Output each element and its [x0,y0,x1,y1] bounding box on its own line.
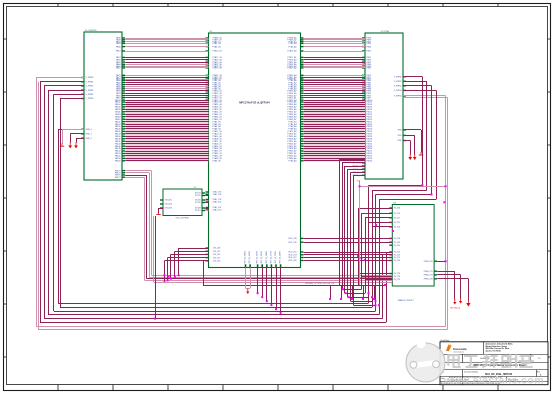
net stubs [305,282,375,300]
svg-text:IN_222: IN_222 [394,222,400,224]
svg-text:RST_B_276N: RST_B_276N [275,251,277,263]
svg-text:www.elecfans.com: www.elecfans.com [443,375,544,387]
power U3 outputs [437,260,470,309]
svg-text:MAIN DC SUPPLY: MAIN DC SUPPLY [398,299,415,302]
svg-text:V_PWR4: V_PWR4 [394,96,402,98]
svg-text:VDD_252: VDD_252 [288,252,296,254]
svg-text:PB177: PB177 [115,177,121,179]
connector J2 [353,31,406,179]
svg-text:PA160: PA160 [115,160,121,163]
svg-text:V_PWR4: V_PWR4 [86,94,94,96]
svg-text:PB46: PB46 [367,46,372,48]
svg-text:RST_B_245N: RST_B_245N [245,251,247,263]
svg-text:IN_279: IN_279 [394,279,400,281]
svg-text:GND_0: GND_0 [86,129,92,131]
title block [440,339,548,385]
svg-text:PWM_271: PWM_271 [424,271,433,273]
svg-text:IN_276: IN_276 [394,276,400,278]
svg-text:RST_B_250N: RST_B_250N [249,251,251,263]
svg-text:JTG_260: JTG_260 [213,261,221,263]
net TVS [357,181,446,286]
svg-text:PB51: PB51 [367,51,372,53]
svg-text:PTA6_G6: PTA6_G6 [213,45,221,48]
svg-text:PWM_274: PWM_274 [424,275,433,277]
svg-text:Austin, TX 78735: Austin, TX 78735 [486,350,501,353]
watermark url [443,375,544,387]
wire bus U1 to J2 [304,39,365,162]
wire VM power loop [36,78,448,330]
svg-text:PA67: PA67 [116,67,120,70]
svg-text:PTA27_G3: PTA27_G3 [213,67,222,70]
crystal block Y1 [160,187,205,219]
svg-text:XT210: XT210 [195,210,201,212]
svg-text:PA43: PA43 [116,42,120,45]
svg-text:PA51: PA51 [116,50,120,53]
svg-text:VM GND_A: VM GND_A [450,307,461,310]
ground J1 [60,129,84,148]
svg-text:PTB0_A0: PTB0_A0 [288,160,296,163]
svg-text:IN_254: IN_254 [394,255,400,257]
svg-text:JTG_248: JTG_248 [213,248,221,250]
svg-text:GN1: GN1 [398,135,402,137]
svg-text:GN2: GN2 [398,140,402,142]
svg-text:V_PWR3: V_PWR3 [394,90,402,92]
svg-text:V_PWR2: V_PWR2 [86,86,94,88]
svg-text:freescale: freescale [453,347,467,351]
svg-text:RST_B_280N: RST_B_280N [280,251,282,263]
wire loops J1 around bottom [40,82,387,323]
wire U1 bottom pins [246,268,282,315]
connector J1 [81,30,125,180]
svg-text:GND_2: GND_2 [86,138,92,140]
svg-text:V_PWR0: V_PWR0 [86,77,94,79]
svg-text:XTAL_202: XTAL_202 [213,201,222,204]
svg-text:Document Number: Document Number [464,370,479,373]
svg-text:RST_B_266N: RST_B_266N [266,251,268,263]
svg-text:V_PWR0: V_PWR0 [394,76,402,78]
svg-text:XTAL_210: XTAL_210 [213,209,222,212]
svg-text:JTG_257: JTG_257 [213,257,221,259]
svg-text:IN_213: IN_213 [394,213,400,215]
svg-text:IN_226: IN_226 [394,227,400,229]
svg-text:V_PWR1: V_PWR1 [86,81,94,83]
svg-text:Orcad Note: Orcad Note [440,339,449,342]
title block text [441,343,542,386]
svg-text:1.0: 1.0 [538,358,540,360]
svg-text:XT202: XT202 [195,202,201,204]
ground J2 [403,130,423,161]
svg-text:IN_245: IN_245 [394,245,400,247]
svg-text:J2 CONN: J2 CONN [380,31,389,33]
wire bus bottom band extra [154,216,393,283]
svg-text:XT195: XT195 [195,195,201,197]
MCU U1 [206,31,304,267]
svg-text:J1 CONN 80: J1 CONN 80 [85,30,97,32]
svg-text:VDD_242: VDD_242 [288,242,296,244]
svg-text:PTB3_A3: PTB3_A3 [288,42,296,45]
svg-text:V_PWR1: V_PWR1 [394,81,402,83]
svg-text:PA46: PA46 [116,45,120,48]
watermark logo [406,339,445,382]
svg-text:JTG_251: JTG_251 [213,251,221,253]
svg-text:PWM_278: PWM_278 [424,279,433,281]
svg-text:OSC208: OSC208 [165,208,172,210]
wire bus J1 bottom to U3 [125,171,392,281]
svg-text:IN_242: IN_242 [394,242,400,244]
svg-text:GN0: GN0 [398,130,402,132]
svg-text:IN_260: IN_260 [394,260,400,262]
svg-text:OSC200: OSC200 [165,200,172,202]
svg-text:OSC204: OSC204 [165,204,172,206]
svg-text:IN_252: IN_252 [394,252,400,254]
power block U3 [389,203,437,302]
svg-text:MPC574xP 2E eLQFP144: MPC574xP 2E eLQFP144 [239,101,270,105]
wire junctions [154,184,447,319]
svg-text:RST_B_271N: RST_B_271N [270,251,272,263]
svg-text:VDD_257: VDD_257 [288,257,296,259]
freescale logo [446,344,467,353]
svg-text:VDD_260: VDD_260 [288,260,296,262]
svg-text:PTB27_A3: PTB27_A3 [287,67,296,70]
svg-text:OSC_SYSTEM: OSC_SYSTEM [176,218,189,220]
svg-text:PB43: PB43 [367,43,372,45]
wire J2 motor outputs to U3 [339,160,392,307]
svg-text:PTB6_A6: PTB6_A6 [288,45,296,48]
svg-text:V_PWR5: V_PWR5 [86,98,94,100]
watermark text cjk [448,355,533,367]
svg-text:IN_208: IN_208 [394,208,400,210]
svg-text:PB67: PB67 [367,68,372,70]
svg-text:PTA11_G3: PTA11_G3 [213,50,222,53]
wire U1 bottom net [203,261,386,286]
svg-text:PTA0_G0: PTA0_G0 [213,160,221,163]
svg-text:PB160: PB160 [367,161,373,163]
wire bus to U3 inputs [357,255,392,280]
svg-text:IN_257: IN_257 [394,257,400,259]
svg-text:PTB11_A3: PTB11_A3 [287,50,296,53]
svg-text:VDD_254: VDD_254 [288,255,296,257]
svg-text:RST_B_262N: RST_B_262N [261,251,263,263]
svg-text:PWM_261: PWM_261 [424,261,433,263]
svg-text:JTG_254: JTG_254 [213,254,221,256]
svg-text:RST_B_257N: RST_B_257N [257,251,259,263]
svg-text:GND_1: GND_1 [86,134,92,136]
svg-text:IN_273: IN_273 [394,273,400,275]
svg-text:V_PWR2: V_PWR2 [394,86,402,88]
ground Y1 [156,208,163,215]
wire Y1 to U1 [205,194,208,211]
wire net down [155,216,157,319]
svg-text:IN_217: IN_217 [394,218,400,220]
svg-text:PTA3_G3: PTA3_G3 [213,42,221,45]
wire bus J1 to U1 [125,39,208,162]
svg-text:IN_238: IN_238 [394,238,400,240]
svg-text:V_PWR3: V_PWR3 [86,90,94,92]
wire U1 JTAG down [164,248,209,283]
wire U1 to U3 [304,239,393,261]
svg-text:Rev: Rev [537,371,540,373]
svg-text:XTAL_194: XTAL_194 [213,193,222,196]
svg-text:VDD_238: VDD_238 [288,238,296,240]
wire J2 power loops [368,77,437,307]
svg-text:VDD AVD_33 TVDD 3V3 3.3V: VDD AVD_33 TVDD 3V3 3.3V_OD [305,282,335,285]
